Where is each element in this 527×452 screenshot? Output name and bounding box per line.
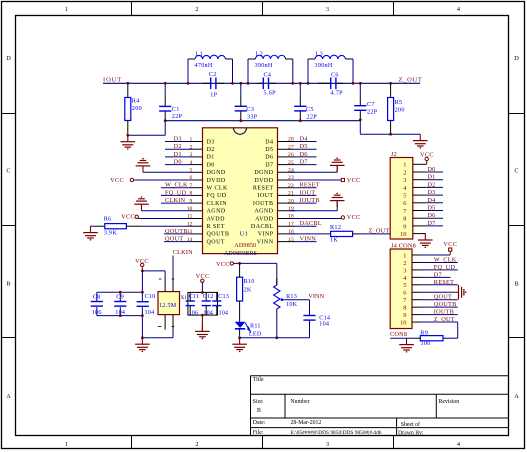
ground J4 pin6 sideways: [456, 285, 467, 300]
svg-text:104: 104: [145, 309, 155, 316]
node D5 label: [300, 143, 308, 150]
svg-text:D: D: [6, 55, 11, 62]
svg-text:9: 9: [403, 312, 406, 319]
svg-text:L1: L1: [196, 50, 203, 57]
power VCC J4 pin1: [421, 241, 457, 255]
wire J4 pin9 IOUTB: [421, 314, 458, 316]
capacitor C2: [203, 71, 224, 99]
wire D1 net pin3: [165, 156, 190, 158]
svg-text:2: 2: [403, 260, 406, 267]
resistor R4: [125, 83, 142, 135]
node D1 label at J2: [427, 174, 435, 181]
node QOUT label at J4: [434, 294, 452, 301]
svg-text:LED: LED: [249, 330, 262, 337]
wire Z_OUT down to R9: [443, 322, 458, 338]
node FQ_UD label: [165, 189, 187, 196]
U1 part AD9850BRS: [224, 251, 257, 257]
svg-text:15: 15: [288, 237, 294, 243]
svg-text:C9: C9: [116, 293, 124, 300]
svg-text:28: 28: [288, 137, 294, 143]
svg-text:W_CLK: W_CLK: [434, 256, 457, 263]
svg-text:12.5M: 12.5M: [159, 302, 177, 309]
connector J2 body: [390, 158, 413, 240]
svg-text:D6: D6: [265, 155, 273, 161]
ground DGND pin24: [330, 157, 345, 171]
wire QOUTB pin13: [164, 233, 190, 235]
wire R13 bottom to ground rail: [276, 315, 278, 338]
svg-text:D2: D2: [207, 147, 215, 153]
svg-text:VINN: VINN: [300, 236, 317, 243]
svg-text:R11: R11: [250, 322, 261, 329]
svg-text:D5: D5: [300, 143, 308, 150]
svg-text:106: 106: [92, 309, 102, 316]
X1 designator: [181, 295, 188, 301]
svg-text:390nH: 390nH: [255, 62, 273, 69]
U1 right pin stubs: [278, 142, 296, 242]
svg-text:25: 25: [288, 160, 294, 166]
svg-text:AGND: AGND: [207, 209, 226, 215]
wire J2 pin2 D0: [426, 171, 443, 173]
svg-text:L2: L2: [256, 50, 263, 57]
svg-text:3: 3: [326, 441, 329, 448]
junction C1 top: [164, 82, 167, 85]
J4 pin stubs: [412, 255, 421, 322]
wire CLKIN to X1: [172, 256, 174, 282]
svg-text:4.7P: 4.7P: [331, 89, 344, 96]
svg-text:DVDD: DVDD: [254, 178, 273, 184]
wire AGND pin19: [290, 201, 337, 211]
svg-text:C3: C3: [246, 106, 254, 113]
svg-text:6: 6: [403, 290, 406, 297]
X1 top pins: [159, 279, 174, 292]
svg-text:E:\05####|#\DDS 9850\DDS 9850: E:\05####|#\DDS 9850\DDS 9850#|#.ddb: [291, 430, 382, 436]
wire D2 net pin2: [165, 148, 190, 150]
svg-text:D1: D1: [174, 151, 182, 158]
R13 labels: [286, 293, 298, 308]
svg-text:QOUT: QOUT: [207, 239, 225, 245]
node Z_OUT label mid: [369, 228, 390, 235]
wire X1 to ground rail: [142, 332, 173, 338]
wire IOUTB net pin20: [295, 202, 317, 204]
wire J2 pin5 D3: [426, 194, 443, 196]
border zone letters: [6, 55, 519, 400]
svg-text:DACBL: DACBL: [251, 224, 274, 230]
node D5 label at J2: [427, 205, 435, 212]
svg-text:R12: R12: [330, 224, 341, 231]
capacitor C5: [294, 82, 317, 122]
border zone numbers: [65, 6, 461, 448]
svg-text:C2: C2: [209, 71, 217, 78]
node D3 label: [174, 136, 182, 143]
wire main output rail: [103, 82, 420, 84]
svg-text:D7: D7: [427, 220, 435, 227]
capacitor C13: [212, 292, 229, 316]
wire R4 bottom to C rail: [128, 121, 165, 136]
svg-text:1K: 1K: [330, 237, 338, 244]
node W_CLK label at J4: [434, 256, 457, 263]
svg-text:C11: C11: [189, 293, 199, 300]
svg-text:VINN: VINN: [257, 239, 274, 245]
svg-text:106: 106: [189, 309, 199, 316]
inductor L1: [188, 50, 233, 83]
svg-text:VCC: VCC: [347, 214, 361, 221]
svg-text:D5: D5: [265, 147, 273, 153]
svg-text:28-Mar-2012: 28-Mar-2012: [291, 420, 322, 426]
wire capacitor ground rail: [165, 120, 360, 122]
wire J4 pin2 W_CLK: [421, 261, 458, 263]
svg-text:AGND: AGND: [254, 209, 273, 215]
wire J4 pin6 to ground: [421, 291, 456, 293]
svg-text:10K: 10K: [286, 301, 298, 308]
svg-text:2: 2: [195, 6, 198, 13]
svg-text:22P: 22P: [307, 113, 318, 120]
svg-text:L3: L3: [316, 50, 323, 57]
wire VCC node to X1 pin: [142, 269, 165, 279]
svg-text:RESET: RESET: [434, 279, 454, 286]
resistor R9: [420, 330, 443, 348]
svg-text:22P: 22P: [367, 108, 378, 115]
svg-text:VCC: VCC: [216, 261, 230, 268]
wire D6 net pin26: [295, 156, 317, 158]
wire C8 C9 bottom rail: [97, 315, 143, 317]
wire D4 net pin28: [295, 141, 317, 143]
svg-text:9: 9: [403, 223, 406, 230]
U1 left pin stubs: [190, 142, 203, 242]
svg-text:D1: D1: [427, 174, 435, 181]
ground right of filter: [413, 134, 428, 148]
svg-text:IOUT: IOUT: [300, 189, 316, 196]
svg-text:VINN: VINN: [308, 293, 324, 300]
node D2 label at J2: [427, 181, 435, 188]
power VCC pin6: [110, 177, 190, 184]
svg-text:3: 3: [403, 177, 406, 184]
wire VCC column left: [141, 271, 143, 338]
wire ground rail LED to C14: [240, 337, 310, 339]
resistor R6: [97, 216, 190, 237]
svg-text:8: 8: [403, 216, 406, 223]
inductor L2: [247, 50, 295, 84]
svg-text:104: 104: [203, 310, 213, 317]
junction ground C11 bank: [201, 314, 204, 317]
svg-text:Z_OUT: Z_OUT: [434, 316, 455, 323]
svg-text:R SET: R SET: [207, 224, 225, 230]
svg-text:Number: Number: [291, 399, 310, 405]
wire J4 pin10 Z_OUT: [421, 321, 458, 323]
J2 pin stubs: [413, 164, 426, 233]
svg-text:B: B: [257, 408, 261, 414]
svg-text:CLKIN: CLKIN: [165, 197, 185, 204]
capacitor bank frame C11 C12 C13: [188, 292, 218, 315]
junction C10 top: [141, 291, 144, 294]
J4 pin numbers: [400, 252, 407, 326]
svg-text:AD9850BRS: AD9850BRS: [224, 251, 257, 257]
connector J4 part CON8: [390, 331, 407, 338]
power VCC at C11 cluster: [196, 273, 210, 292]
LED R11: [235, 301, 251, 338]
resistor R5: [388, 82, 405, 136]
svg-text:FQ_UD: FQ_UD: [434, 264, 456, 271]
node QOUT label: [165, 236, 183, 243]
svg-text:10: 10: [400, 231, 406, 238]
svg-text:VCC: VCC: [443, 241, 457, 248]
svg-text:D4: D4: [427, 197, 436, 204]
svg-text:Drawn By:: Drawn By:: [398, 430, 424, 436]
junction C9 top: [119, 291, 122, 294]
port IOUT: [103, 76, 122, 83]
svg-text:D3: D3: [174, 136, 182, 143]
svg-text:X1: X1: [181, 295, 188, 301]
node D7 label at J2: [427, 220, 435, 227]
svg-text:1P: 1P: [210, 91, 217, 98]
LED R11 labels: [249, 322, 262, 337]
svg-text:RESET: RESET: [253, 186, 274, 192]
wire D0 net pin4: [165, 164, 190, 166]
svg-text:C10: C10: [145, 293, 156, 300]
svg-text:Title: Title: [253, 377, 264, 383]
svg-text:VCC: VCC: [110, 177, 124, 184]
power VCC J2 pin1: [420, 151, 434, 164]
svg-text:R9: R9: [420, 330, 428, 337]
svg-text:D3: D3: [427, 189, 435, 196]
capacitor C4: [258, 71, 276, 96]
crystal X1 body: [158, 292, 180, 315]
svg-text:R10: R10: [244, 278, 255, 285]
ground AGND pin10: [134, 196, 149, 210]
svg-text:Size: Size: [253, 399, 263, 405]
node D4 label: [300, 136, 309, 143]
U1 left pin numbers: [187, 137, 193, 243]
svg-text:DGND: DGND: [254, 170, 273, 176]
wire R13 wiper to VINN: [283, 300, 309, 316]
svg-text:C13: C13: [218, 293, 229, 300]
svg-text:IOUT: IOUT: [257, 193, 273, 199]
X1 bottom pins: [158, 315, 174, 332]
node QOUTB label at J4: [434, 301, 457, 308]
wire J2 pin4 D2: [426, 186, 443, 188]
svg-text:D4: D4: [300, 136, 309, 143]
svg-text:FQ UD: FQ UD: [207, 193, 227, 199]
capacitor C6: [318, 71, 343, 96]
svg-text:VCC: VCC: [420, 151, 434, 158]
U1 value AD9850: [234, 242, 256, 249]
svg-text:DVDD: DVDD: [207, 178, 226, 184]
svg-text:C12: C12: [203, 293, 214, 300]
svg-text:CLKIN: CLKIN: [207, 201, 228, 207]
svg-text:QOUTB: QOUTB: [434, 301, 457, 308]
svg-text:VCC: VCC: [135, 258, 149, 265]
svg-text:A: A: [6, 393, 11, 400]
svg-text:IOUT: IOUT: [103, 76, 122, 83]
svg-text:IOUTB: IOUTB: [253, 201, 274, 207]
svg-text:C7: C7: [367, 101, 375, 108]
svg-text:D0: D0: [174, 159, 182, 166]
svg-text:C8: C8: [93, 293, 101, 300]
U1 pin names: [207, 139, 274, 245]
svg-text:VINP: VINP: [258, 232, 274, 238]
node RESET label at J4: [434, 279, 454, 286]
op-amp U1 AD9850 body: [203, 128, 278, 254]
svg-text:22: 22: [288, 183, 294, 189]
port Z_OUT top: [399, 76, 423, 83]
ground under C11 bank: [195, 315, 210, 339]
node D0 label at J2: [427, 166, 435, 173]
svg-text:R4: R4: [132, 98, 140, 105]
wire J2 pin10 to ground: [424, 233, 426, 235]
wire QOUT pin14: [164, 241, 190, 243]
svg-text:QOUTB: QOUTB: [165, 228, 188, 235]
connector J4 designator: [391, 242, 416, 249]
node D7 label: [300, 159, 308, 166]
wire J2 pin6 D4: [426, 202, 443, 204]
wire C8 C9 top rail: [97, 291, 143, 293]
junction L1 left: [187, 82, 190, 85]
node CLKIN label: [165, 197, 185, 204]
svg-text:VCC: VCC: [121, 213, 135, 220]
wire D3 net pin1: [165, 141, 190, 143]
svg-text:File:: File:: [253, 430, 264, 436]
node DACBL label: [300, 220, 322, 227]
svg-text:B: B: [514, 281, 518, 288]
svg-text:W CLK: W CLK: [207, 186, 229, 192]
svg-text:4: 4: [457, 6, 461, 13]
svg-text:470nH: 470nH: [195, 62, 213, 69]
svg-text:C: C: [6, 168, 10, 175]
svg-text:C6: C6: [331, 71, 339, 78]
svg-text:AVDD: AVDD: [207, 216, 226, 222]
inductor L3: [307, 50, 355, 84]
J2 pin numbers: [400, 162, 407, 238]
svg-text:QOUTB: QOUTB: [207, 232, 230, 238]
node D3 label at J2: [427, 189, 435, 196]
power VCC pin23: [290, 177, 361, 184]
svg-text:R13: R13: [286, 293, 297, 300]
svg-text:10: 10: [400, 319, 406, 326]
svg-text:DGND: DGND: [207, 170, 226, 176]
svg-text:Z_OUT: Z_OUT: [399, 76, 423, 83]
node FQ_UD label at J4: [434, 264, 456, 271]
wire DACBL net pin17: [295, 225, 317, 227]
svg-text:DACBL: DACBL: [300, 220, 322, 227]
capacitor C9: [114, 292, 126, 316]
svg-text:26: 26: [288, 152, 294, 158]
ground under R9: [399, 338, 414, 352]
svg-text:200: 200: [395, 106, 405, 113]
svg-text:U1: U1: [240, 230, 248, 237]
svg-text:CON8: CON8: [390, 331, 407, 338]
node D1 label: [174, 151, 182, 158]
svg-text:D0: D0: [427, 166, 435, 173]
svg-text:FQ_UD: FQ_UD: [165, 189, 187, 196]
wire DGND pin24: [290, 166, 337, 173]
svg-text:D7: D7: [300, 159, 308, 166]
wire VCC to R13: [276, 263, 278, 285]
svg-text:3: 3: [326, 6, 329, 13]
svg-text:5: 5: [403, 193, 406, 200]
svg-text:RESET: RESET: [300, 182, 320, 189]
svg-text:VCC: VCC: [347, 177, 361, 184]
ground J2 pin10: [418, 234, 433, 248]
connector J4 body: [390, 249, 412, 329]
svg-text:27: 27: [288, 144, 294, 150]
U1 right pin numbers: [288, 137, 294, 243]
svg-text:20: 20: [288, 198, 294, 204]
resistor R12: [330, 224, 353, 244]
wire D7 net pin25: [295, 164, 317, 166]
resistor R10: [237, 263, 255, 301]
junction X1 ground: [141, 336, 144, 339]
capacitor C1: [159, 83, 182, 120]
capacitor C12: [202, 292, 214, 316]
svg-text:D0: D0: [207, 162, 215, 168]
svg-text:D6: D6: [427, 212, 435, 219]
wire R9 left: [390, 337, 420, 339]
power VCC at R10: [216, 261, 277, 268]
svg-text:J4 CON8: J4 CON8: [391, 242, 416, 249]
node D7 label at J4: [434, 271, 442, 278]
junction R4 top: [126, 82, 129, 85]
title block lines: [251, 376, 509, 436]
svg-text:2: 2: [195, 441, 198, 448]
svg-text:2K: 2K: [244, 287, 252, 294]
svg-text:D2: D2: [174, 143, 182, 150]
svg-text:1: 1: [403, 162, 406, 169]
wire RESET net pin22: [295, 187, 317, 189]
ground DGND pin5: [136, 158, 151, 172]
svg-text:QOUT: QOUT: [434, 294, 452, 301]
wire AGND pin10: [142, 205, 191, 211]
node IOUT label: [300, 189, 316, 196]
node VINN label: [300, 236, 317, 243]
ground left of R6: [83, 226, 98, 240]
wire J2 pin7 D5: [426, 210, 443, 212]
power VCC pin18: [290, 214, 361, 221]
svg-text:C5: C5: [306, 106, 314, 113]
svg-text:33P: 33P: [247, 113, 258, 120]
svg-text:AD9850: AD9850: [234, 242, 256, 249]
wire J2 pin8 D6: [426, 217, 443, 219]
wire J4 pin7 QOUT: [421, 299, 458, 301]
node IOUTB label: [300, 197, 320, 204]
svg-text:390nH: 390nH: [315, 62, 333, 69]
svg-text:D3: D3: [207, 139, 215, 145]
svg-text:22P: 22P: [172, 113, 183, 120]
svg-text:6: 6: [403, 200, 406, 207]
node QOUTB label: [165, 228, 188, 235]
capacitor C3: [235, 82, 258, 122]
svg-text:Z_OUT: Z_OUT: [369, 228, 390, 235]
svg-text:21: 21: [288, 191, 294, 197]
svg-text:Sheet of: Sheet of: [401, 421, 420, 428]
svg-text:QOUT: QOUT: [165, 236, 183, 243]
wire W_CLK pin7: [161, 187, 190, 189]
svg-text:W_CLK: W_CLK: [165, 182, 188, 189]
wire ground rail right jog: [360, 121, 420, 135]
svg-text:A: A: [514, 393, 519, 400]
svg-text:3: 3: [403, 267, 406, 274]
ground under X1: [135, 338, 150, 352]
node CLKIN label at X1: [173, 249, 193, 256]
wire FQ_UD pin8: [161, 194, 190, 196]
node D0 label: [174, 159, 182, 166]
U1 designator text: [240, 230, 248, 237]
wire J4 pin4 D7: [421, 276, 451, 278]
svg-text:17: 17: [288, 221, 294, 227]
junction R10 top: [238, 262, 241, 265]
power VCC at X1: [135, 258, 149, 269]
node Z_OUT label at J4: [434, 316, 455, 323]
junction C10 bottom: [141, 314, 144, 317]
wire VINP pin16 to R12: [290, 233, 331, 235]
